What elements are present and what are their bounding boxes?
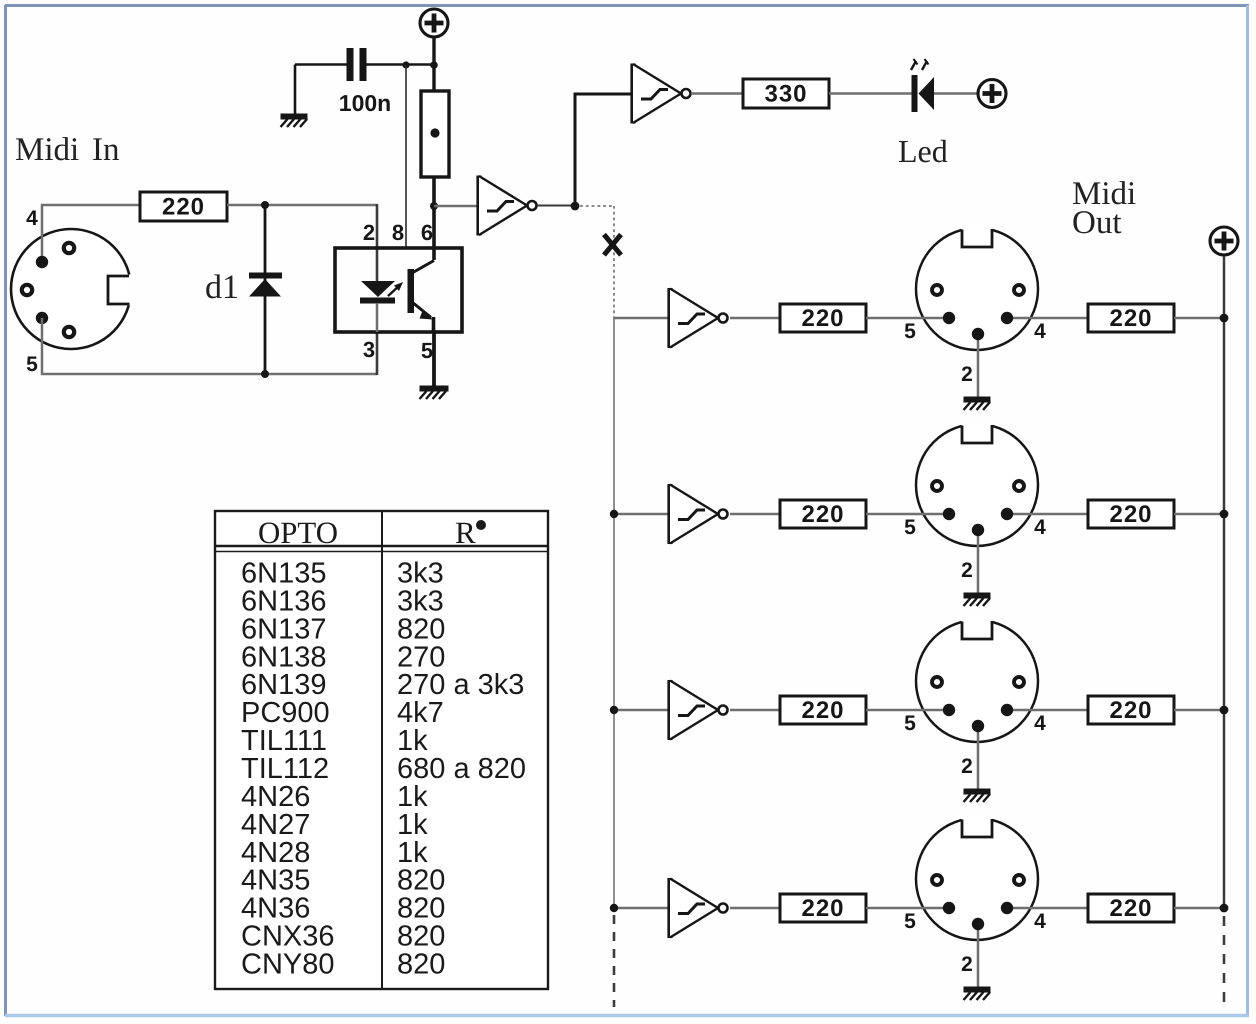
svg-text:8: 8 (392, 220, 404, 245)
diode d1 (249, 205, 282, 374)
wire pin2 to ground channel 3 (977, 726, 980, 789)
table row TIL112 (241, 753, 526, 785)
wire opto emitter to ground (432, 332, 436, 386)
connector J1 Midi In DIN-5 (11, 229, 134, 349)
DIN-5 connector Midi Out 4 pins (932, 875, 1024, 930)
wire LED to +V (934, 92, 978, 95)
opto internal LED (360, 281, 395, 332)
right rail dashed lower part (1223, 916, 1226, 1007)
output channel 4: branch wire (614, 907, 670, 910)
table header R* (455, 515, 486, 550)
svg-text:220: 220 (162, 194, 205, 221)
junction right rail channel 1 (1220, 314, 1229, 323)
svg-text:4: 4 (1034, 320, 1046, 343)
svg-text:220: 220 (1109, 895, 1152, 922)
svg-text:3: 3 (363, 337, 375, 362)
wire bottom net: J1 pin5 to opto pin3 (42, 318, 377, 374)
wire up to LED gate (575, 94, 633, 206)
output channel 1: branch wire (614, 317, 670, 320)
svg-text:220: 220 (801, 895, 844, 922)
label Midi Out (1072, 176, 1136, 241)
svg-text:Midi: Midi (15, 132, 79, 168)
svg-text:220: 220 (801, 501, 844, 528)
svg-text:220: 220 (801, 305, 844, 332)
svg-text:220: 220 (1109, 501, 1152, 528)
table row 4N27 (241, 809, 428, 841)
resistor 220 right channel 2 (1088, 500, 1174, 528)
table row 6N135 (241, 558, 444, 590)
svg-text:5: 5 (26, 353, 38, 376)
svg-text:5: 5 (421, 338, 433, 363)
wire R* to node / opto pin6 (432, 177, 436, 260)
DIN-5 connector Midi Out 4 body (916, 815, 1038, 940)
junction rail X channel 2 (610, 510, 618, 518)
DIN-5 connector Midi Out 1 body (916, 225, 1038, 350)
wire gate D to resistor (730, 513, 780, 516)
table row 4N28 (241, 837, 428, 869)
wire pin4 to resistor channel 3 (1007, 709, 1088, 712)
DIN-5 connector Midi Out 3 pins (932, 677, 1024, 732)
svg-text:Led: Led (898, 133, 948, 169)
table row TIL111 (241, 725, 428, 757)
junction R* output node (430, 202, 438, 210)
resistor R2 330 (743, 79, 829, 108)
table row 6N136 (241, 585, 444, 617)
wire opto pin2 vertical (376, 204, 379, 281)
table row 6N138 (241, 641, 445, 673)
svg-text:4: 4 (1034, 910, 1046, 933)
svg-text:5: 5 (904, 910, 916, 933)
svg-text:4: 4 (26, 207, 38, 230)
wire node to gate A input (434, 205, 480, 208)
optocoupler U1 box (335, 248, 462, 332)
table row 6N139 (241, 669, 524, 701)
svg-text:820: 820 (397, 949, 445, 981)
schmitt inverter gate A (479, 176, 537, 236)
output channel 2: branch wire (614, 513, 670, 516)
schmitt inverter gate B (LED driver) (633, 64, 691, 124)
resistor 220 left channel 4 (780, 894, 866, 922)
pin 5 (filled) of J1 (26, 312, 48, 376)
svg-text:Out: Out (1072, 205, 1122, 241)
wire opto pin3 vertical (376, 332, 379, 375)
ground channel 4 (964, 990, 991, 1001)
LED D2 (911, 59, 934, 112)
power +V symbol (LED) (978, 80, 1006, 108)
opto table box (215, 511, 548, 989)
wire pin4 to resistor channel 1 (1007, 317, 1088, 320)
wire resistor to pin5 channel 2 (866, 513, 949, 516)
wire gate A out (537, 205, 576, 207)
resistor 220 right channel 4 (1088, 894, 1174, 922)
ground channel 1 (964, 400, 991, 411)
ground channel 2 (964, 596, 991, 607)
wire pin2 to ground channel 2 (977, 530, 980, 593)
wire to +V rail channel 2 (1174, 513, 1224, 516)
wire resistor to pin5 channel 1 (866, 317, 949, 320)
wire gate B to R330 (691, 92, 743, 95)
resistor 220 right channel 3 (1088, 696, 1174, 724)
right +V rail (1223, 256, 1226, 908)
svg-text:220: 220 (1109, 697, 1152, 724)
wire gate E to resistor (730, 709, 780, 712)
svg-text:6: 6 (421, 220, 433, 245)
svg-text:2: 2 (363, 220, 375, 245)
svg-text:In: In (92, 132, 120, 168)
junction right rail channel 2 (1220, 510, 1229, 519)
table row 4N36 (241, 893, 445, 925)
junction rail X channel 3 (610, 706, 618, 714)
svg-text:100n: 100n (339, 90, 391, 116)
dashed rail (X net) lower part (613, 915, 616, 1007)
resistor R1 220 (Midi In) (140, 192, 227, 221)
junction gate A output node (571, 202, 580, 211)
svg-text:2: 2 (961, 559, 973, 582)
opto light arrow (388, 282, 403, 296)
wire pin4 to resistor channel 2 (1007, 513, 1088, 516)
table row CNX36 (241, 921, 445, 953)
table row 4N35 (241, 865, 445, 897)
resistor R* (vertical, marked with dot) (421, 91, 449, 177)
junction bottom of d1 (261, 370, 269, 378)
wire to +V rail channel 3 (1174, 709, 1224, 712)
schmitt inverter gate D (670, 484, 728, 544)
svg-text:2: 2 (961, 953, 973, 976)
wire +V down to R* (432, 38, 435, 93)
junction top of d1 (261, 201, 269, 209)
schmitt inverter gate C (670, 288, 728, 348)
wire +V to capacitor (295, 63, 434, 66)
wire gate F to resistor (730, 907, 780, 910)
ground channel 3 (964, 792, 991, 803)
svg-text:2: 2 (961, 363, 973, 386)
DIN-5 connector Midi Out 2 pins (932, 481, 1024, 536)
label Midi In (15, 132, 120, 168)
svg-text:5: 5 (904, 712, 916, 735)
wire resistor to pin5 channel 3 (866, 709, 949, 712)
svg-text:d1: d1 (205, 269, 239, 306)
node X mark (604, 235, 621, 256)
opto phototransistor Q1 (408, 261, 435, 333)
junction right rail channel 4 (1220, 904, 1229, 913)
ground (capacitor) (281, 117, 308, 128)
wire pin8 of opto (405, 65, 407, 249)
svg-text:R: R (455, 515, 476, 550)
table row 6N137 (241, 613, 445, 645)
junction cap / +V line (430, 61, 438, 69)
power +V symbol (top) (420, 9, 448, 37)
junction cap / pin8 branch (402, 61, 409, 68)
table row 4N26 (241, 781, 428, 813)
svg-text:5: 5 (904, 320, 916, 343)
solid rail X net between outputs (613, 318, 615, 908)
ground (opto emitter) (420, 389, 449, 400)
svg-text:220: 220 (801, 697, 844, 724)
svg-text:CNY80: CNY80 (241, 949, 335, 981)
DIN-5 connector Midi Out 1 pins (932, 285, 1024, 340)
wire capacitor to ground (294, 65, 297, 115)
resistor 220 left channel 2 (780, 500, 866, 528)
svg-text:2: 2 (961, 755, 973, 778)
wire to +V rail channel 1 (1174, 317, 1224, 320)
wire R330 to LED (829, 92, 913, 95)
junction rail X channel 4 (610, 904, 618, 912)
table row CNY80 (241, 949, 445, 981)
schmitt inverter gate E (670, 680, 728, 740)
DIN-5 connector Midi Out 3 body (916, 617, 1038, 742)
power +V symbol (right rail) (1210, 227, 1238, 255)
schmitt inverter gate F (670, 878, 728, 938)
wire resistor to opto pin2 (227, 204, 377, 207)
resistor 220 right channel 1 (1088, 304, 1174, 332)
wire pin2 to ground channel 4 (977, 924, 980, 987)
svg-text:OPTO: OPTO (258, 515, 338, 550)
svg-text:5: 5 (904, 516, 916, 539)
wire pin4 to resistor channel 4 (1007, 907, 1088, 910)
output channel 3: branch wire (614, 709, 670, 712)
dashed wire to X node (580, 205, 614, 207)
capacitor C1 100n (339, 48, 391, 116)
wire pin2 to ground channel 1 (977, 334, 980, 397)
svg-text:4: 4 (1034, 712, 1046, 735)
wire resistor to pin5 channel 4 (866, 907, 949, 910)
table row PC900 (241, 697, 444, 729)
svg-text:4: 4 (1034, 516, 1046, 539)
DIN-5 connector Midi Out 2 body (916, 421, 1038, 546)
wire gate C to resistor (730, 317, 780, 320)
wire to +V rail channel 4 (1174, 907, 1224, 910)
resistor 220 left channel 1 (780, 304, 866, 332)
resistor 220 left channel 3 (780, 696, 866, 724)
svg-text:330: 330 (764, 81, 807, 108)
wire pin4 of J1 to resistor (42, 205, 140, 262)
pin 4 (filled) of J1 (26, 207, 48, 268)
svg-text:220: 220 (1109, 305, 1152, 332)
junction right rail channel 3 (1220, 706, 1229, 715)
